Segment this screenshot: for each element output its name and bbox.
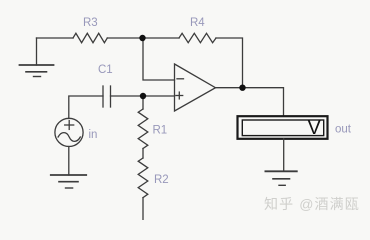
AC source V1 (55, 118, 83, 146)
svg-text:R1: R1 (153, 125, 168, 137)
wire GND1 to R3 (37, 37, 74, 39)
svg-text:R2: R2 (154, 174, 169, 186)
svg-text:R3: R3 (83, 17, 98, 29)
wire source to GND3 (68, 147, 70, 176)
wire R3 to node A (107, 37, 143, 39)
svg-text:C1: C1 (98, 64, 113, 76)
ground GND1 (top left) (20, 38, 54, 77)
node A junction dot (139, 35, 145, 41)
svg-text:V: V (308, 117, 322, 139)
wire R2 to bottom edge (142, 198, 144, 220)
node B junction dot (239, 85, 245, 91)
op-amp U1 (175, 64, 216, 111)
wire C1 to node C (111, 95, 144, 97)
voltmeter M1 (238, 116, 328, 139)
wire R1 to R2 (142, 149, 144, 159)
wire node B to voltmeter (243, 88, 284, 116)
resistor R4 (179, 33, 216, 42)
wire node A to R4 (143, 37, 179, 39)
resistor R2 (138, 158, 148, 198)
wire source to C1 (69, 96, 103, 119)
svg-text:知乎 @酒满瓯: 知乎 @酒满瓯 (264, 196, 360, 212)
svg-text:R4: R4 (190, 17, 205, 29)
svg-text:in: in (89, 129, 98, 141)
wire voltmeter to GND2 (283, 139, 285, 172)
ground GND3 (below source) (51, 175, 86, 188)
wire op-amp output to node B (216, 87, 243, 89)
resistor R3 (73, 33, 107, 42)
wire R4 to output corner (216, 38, 243, 88)
wire feedback node A to inverting input (143, 38, 175, 80)
wire node C to non-inverting input (143, 95, 175, 97)
node C junction dot (140, 93, 146, 99)
ground GND2 (below voltmeter) (265, 171, 296, 185)
svg-text:out: out (335, 124, 352, 136)
resistor R1 (138, 109, 148, 149)
capacitor C1 (103, 86, 111, 107)
wire node C to R1 (142, 96, 144, 109)
